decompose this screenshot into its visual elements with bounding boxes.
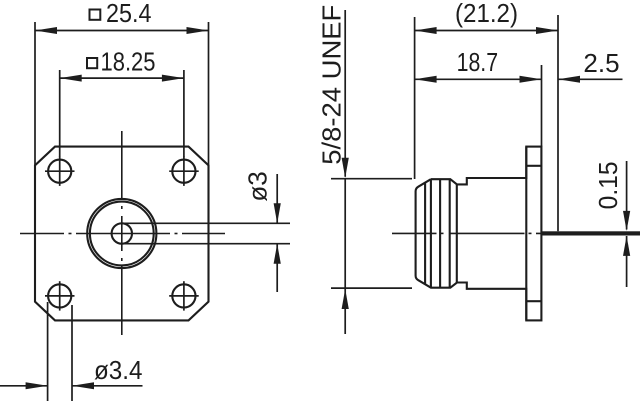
dimension (21.2): dimension line with arrows <box>415 30 558 32</box>
center contact circle ø3 <box>112 223 132 243</box>
mounting hole bottom-right <box>169 281 199 310</box>
dimension 18.7: dimension line with arrows <box>415 78 542 80</box>
dimension 25.4: dimension line with arrows <box>35 30 209 32</box>
svg-text:5/8-24 UNEF: 5/8-24 UNEF <box>317 5 347 165</box>
flange chamfer edge lines <box>526 165 541 167</box>
connector outer circle <box>87 199 156 268</box>
connector inner ring <box>90 202 154 266</box>
dimension 25.4: square symbol <box>90 10 101 20</box>
svg-text:18.7: 18.7 <box>457 47 499 77</box>
svg-text:ø3.4: ø3.4 <box>94 355 143 385</box>
mounting hole bottom-left <box>45 281 75 310</box>
dimension 0.15: dimension line and outside arrows <box>626 161 628 230</box>
svg-text:0.15: 0.15 <box>593 161 623 209</box>
dimension 18.25: dimension line with arrows <box>60 77 184 79</box>
svg-text:2.5: 2.5 <box>583 48 619 78</box>
thread / knurl vertical lines <box>424 183 426 285</box>
svg-text:25.4: 25.4 <box>106 0 152 28</box>
connector body profile (outer shell, thread section, front face) <box>416 147 527 321</box>
vertical centerline <box>121 131 123 335</box>
dimension (21.2): extension lines <box>414 17 416 179</box>
svg-text:ø3: ø3 <box>243 171 273 201</box>
horizontal centerline <box>20 233 225 235</box>
rear contact plane (0.15 offset lines, drawn as thick band) <box>541 231 640 235</box>
dimension 18.25: extension lines <box>59 70 61 157</box>
flange (side view) <box>526 147 541 321</box>
mounting hole top-right <box>169 157 199 186</box>
dimension ø3.4: arrow line <box>0 385 48 387</box>
flange outline (square 25.4 with chamfered corners) <box>35 147 209 321</box>
svg-text:(21.2): (21.2) <box>455 0 518 28</box>
svg-text:18.25: 18.25 <box>101 47 156 77</box>
dimension 18.7: extension line from flange rear face <box>541 65 543 147</box>
dimension ø3.4: extension lines down from bottom-left hole <box>47 302 49 401</box>
dimension 2.5: arrow line from right <box>558 78 623 80</box>
dimension 5/8-24 UNEF: extension lines <box>331 178 412 180</box>
side view horizontal centerline <box>392 232 558 234</box>
mounting hole top-left <box>45 157 75 186</box>
dimension 5/8-24 UNEF: dimension line and outside arrows <box>344 10 346 177</box>
dimension 18.25: square symbol <box>87 58 97 68</box>
dimension ø3: vertical dimension line and arrows <box>276 174 278 223</box>
dimension 25.4: extension lines <box>34 22 36 165</box>
ø3 tangent leader lines to the right <box>124 222 290 224</box>
